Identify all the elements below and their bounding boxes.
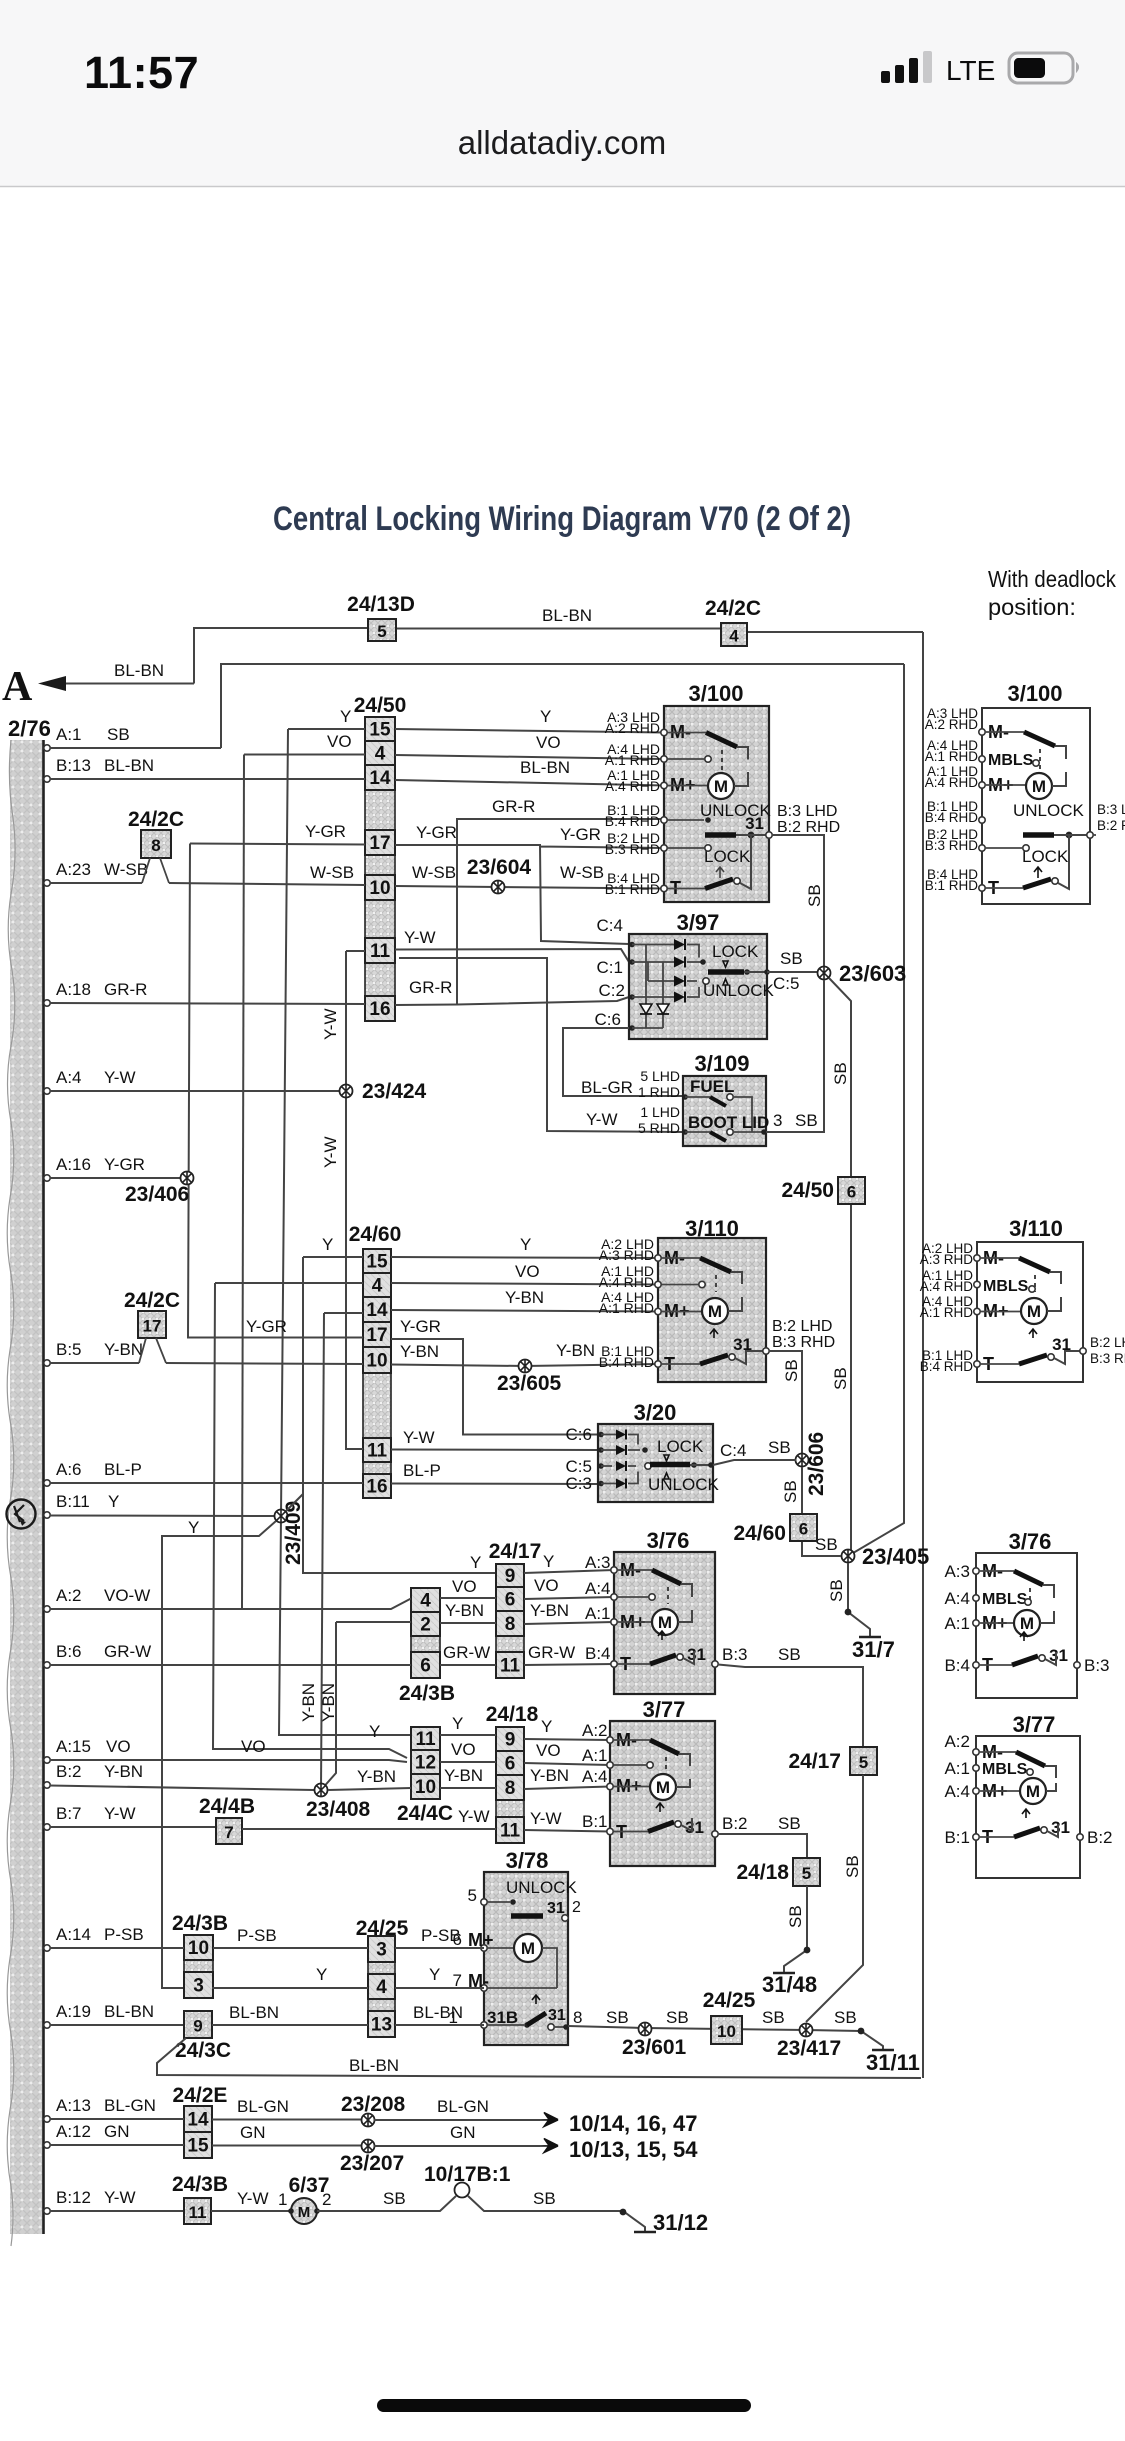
wire VO-W A:2: [50, 1599, 411, 1610]
wire SB 23/405 to ground: [848, 1563, 870, 1636]
svg-text:A:3 RHD: A:3 RHD: [599, 1247, 654, 1263]
svg-text:23/605: 23/605: [497, 1372, 562, 1395]
wire BL-BN 24/50-14 right: [395, 780, 664, 786]
svg-text:SB: SB: [666, 2008, 689, 2027]
wire Y-BN vertical: [321, 1313, 324, 1790]
ground 31/7: [859, 1636, 881, 1639]
svg-text:6: 6: [847, 1183, 856, 1202]
svg-text:A:12: A:12: [56, 2122, 91, 2141]
svg-text:SB: SB: [762, 2008, 785, 2027]
wire W-SB 24/50-10 right: [395, 886, 664, 889]
svg-text:31: 31: [745, 814, 764, 833]
svg-text:Y-BN: Y-BN: [556, 1341, 595, 1360]
svg-text:SB: SB: [831, 1367, 850, 1390]
svg-text:3/77: 3/77: [643, 1697, 686, 1722]
label SB (24/18-5 drop): [786, 1905, 805, 1928]
svg-text:GR-W: GR-W: [104, 1642, 151, 1661]
splice 23/606: [796, 1454, 809, 1467]
svg-text:GR-W: GR-W: [528, 1643, 575, 1662]
wire BL-BN to arrow A: [66, 683, 194, 685]
wire Y-W vertical 23/424: [346, 951, 363, 1449]
svg-text:11: 11: [370, 941, 391, 962]
pin B:12 on connector 2/76: [44, 2208, 50, 2214]
wire Y-W 24/50-11: [346, 949, 629, 962]
home indicator: [377, 2399, 751, 2412]
svg-text:31: 31: [548, 2007, 566, 2024]
svg-text:VO: VO: [515, 1262, 540, 1281]
svg-text:Y-BN: Y-BN: [104, 1762, 143, 1781]
wire SB 3/76 to 24/17-5: [718, 1665, 863, 1748]
svg-text:Y: Y: [188, 1518, 199, 1537]
wire GR-W B:6: [50, 1664, 411, 1666]
svg-text:Central Locking Wiring Diagram: Central Locking Wiring Diagram V70 (2 Of…: [273, 500, 851, 538]
svg-text:BL-P: BL-P: [403, 1461, 441, 1480]
pin A:12 on connector 2/76: [44, 2142, 50, 2148]
status bar background: [0, 0, 1125, 186]
wire SB 10/17B:1 to 31/12: [468, 2196, 645, 2231]
wire Y 24/50-15 left: [288, 728, 365, 730]
label SB (23/606 below): [781, 1480, 800, 1503]
wire VO A:15: [50, 1760, 407, 1762]
svg-text:A:4: A:4: [585, 1579, 611, 1598]
wire SB 6/37 to 10/17B:1: [317, 2196, 456, 2211]
svg-text:Y-W: Y-W: [104, 1068, 136, 1087]
splice 23/601: [639, 2023, 652, 2036]
svg-text:VO: VO: [241, 1737, 266, 1756]
svg-text:SB: SB: [606, 2008, 629, 2027]
svg-text:BL-BN: BL-BN: [114, 661, 164, 680]
wire Y 24/60-15 left: [303, 1256, 363, 1258]
svg-text:10/14, 16, 47: 10/14, 16, 47: [569, 2111, 697, 2136]
svg-text:Y: Y: [322, 1235, 333, 1254]
wire Y 24/17-9 right: [524, 1570, 614, 1573]
svg-text:B:6: B:6: [56, 1642, 82, 1661]
svg-text:24/3B: 24/3B: [172, 1912, 228, 1935]
svg-text:A:2: A:2: [944, 1732, 970, 1751]
svg-text:C:4: C:4: [720, 1441, 746, 1460]
svg-text:BL-P: BL-P: [104, 1460, 142, 1479]
svg-text:GN: GN: [240, 2123, 266, 2142]
svg-text:A:4: A:4: [582, 1767, 608, 1786]
label Y-W (vert upper): [321, 1009, 340, 1041]
svg-text:31/12: 31/12: [653, 2210, 708, 2235]
pin B:7 on connector 2/76: [44, 1824, 50, 1830]
wire Y-BN 24/60-14 right: [391, 1310, 658, 1312]
wire BL-BN A:19: [50, 2024, 184, 2026]
svg-text:Y-BN: Y-BN: [530, 1766, 569, 1785]
svg-text:23/603: 23/603: [839, 961, 906, 986]
svg-text:A:18: A:18: [56, 980, 91, 999]
svg-text:3/78: 3/78: [506, 1848, 549, 1873]
wire Y vertical 24/60-24/17: [303, 1257, 496, 1573]
svg-text:GR-R: GR-R: [409, 978, 452, 997]
svg-text:24/2C: 24/2C: [128, 808, 184, 831]
svg-text:GR-R: GR-R: [104, 980, 147, 999]
svg-text:B:4 RHD: B:4 RHD: [605, 813, 660, 829]
wire GR-R A:18: [50, 1003, 365, 1004]
svg-text:MBLS: MBLS: [988, 752, 1034, 769]
svg-text:Y-BN: Y-BN: [299, 1683, 318, 1722]
svg-text:24/4B: 24/4B: [199, 1795, 255, 1818]
label SB (3/110 drop): [782, 1359, 801, 1382]
svg-text:MBLS: MBLS: [982, 1761, 1028, 1778]
wire SB 24/17-5 down: [806, 1775, 863, 2022]
svg-text:14: 14: [366, 1300, 388, 1321]
splice 23/408: [315, 1784, 328, 1797]
svg-text:UNLOCK: UNLOCK: [1013, 801, 1085, 820]
svg-text:W-SB: W-SB: [310, 863, 354, 882]
svg-text:B:4 RHD: B:4 RHD: [925, 810, 979, 825]
svg-text:A:15: A:15: [56, 1737, 91, 1756]
svg-text:Y-GR: Y-GR: [246, 1317, 287, 1336]
svg-text:B:3 RH: B:3 RH: [1090, 1351, 1125, 1366]
wire Y-GR A:16: [50, 1177, 187, 1179]
svg-text:W-SB: W-SB: [560, 863, 604, 882]
splice 23/603: [818, 967, 831, 980]
svg-text:BL-BN: BL-BN: [542, 606, 592, 625]
wire P-SB 24/25-3 to 3/78: [395, 1947, 484, 1949]
svg-text:8: 8: [151, 836, 160, 855]
svg-text:A:2 RHD: A:2 RHD: [605, 720, 660, 736]
svg-text:A:1: A:1: [944, 1759, 970, 1778]
svg-text:BL-BN: BL-BN: [229, 2003, 279, 2022]
svg-text:10/17B:1: 10/17B:1: [424, 2163, 511, 2186]
svg-text:SB: SB: [815, 1535, 838, 1554]
svg-text:6: 6: [799, 1520, 808, 1539]
pin A:16 on connector 2/76: [44, 1175, 50, 1181]
wire P-SB 24/3B-10 to 24/25-3: [213, 1947, 368, 1949]
svg-text:B:12: B:12: [56, 2188, 91, 2207]
svg-text:23/606: 23/606: [805, 1432, 828, 1496]
svg-text:VO: VO: [106, 1737, 131, 1756]
pin B:6 on connector 2/76: [44, 1662, 50, 1668]
svg-text:B:2 LH: B:2 LH: [1090, 1335, 1125, 1350]
pin A:15 on connector 2/76: [44, 1757, 50, 1763]
wire BL-GN A:13: [50, 2118, 184, 2120]
junction dot 23/405 drop: [845, 1609, 852, 1616]
pin B:11 on connector 2/76: [44, 1512, 50, 1518]
svg-text:A:19: A:19: [56, 2002, 91, 2021]
wire Y 24/4C-11 feed: [440, 1734, 496, 1736]
svg-text:A:4 RHD: A:4 RHD: [599, 1274, 654, 1290]
svg-text:Y-W: Y-W: [237, 2189, 269, 2208]
wire Y-GR 24/50-17 right: [395, 845, 664, 944]
svg-text:24/50: 24/50: [354, 694, 407, 717]
svg-text:B:2: B:2: [1087, 1828, 1113, 1847]
svg-text:SB: SB: [786, 1905, 805, 1928]
svg-text:B:2: B:2: [722, 1814, 748, 1833]
wire W-SB A:23: [50, 883, 365, 885]
ground 31/11: [872, 2049, 894, 2052]
wire Y-GR top: [190, 844, 365, 845]
connector 24/3C pin 9: [184, 2011, 212, 2038]
svg-text:24/18: 24/18: [736, 1861, 789, 1884]
svg-text:Y-BN: Y-BN: [530, 1601, 569, 1620]
svg-text:A:16: A:16: [56, 1155, 91, 1174]
svg-text:B:4: B:4: [585, 1644, 611, 1663]
svg-text:B:3 LH: B:3 LH: [1097, 802, 1125, 817]
junction dot 31/11: [858, 2028, 865, 2035]
svg-text:24/60: 24/60: [733, 1522, 786, 1545]
svg-text:M: M: [1027, 1302, 1041, 1321]
svg-text:9: 9: [505, 1730, 516, 1751]
svg-text:A:4 RHD: A:4 RHD: [605, 778, 660, 794]
svg-text:10: 10: [717, 2022, 736, 2041]
svg-text:24/17: 24/17: [788, 1750, 841, 1773]
wire VO 24/60-4 left: [215, 1282, 363, 1284]
svg-text:SB: SB: [768, 1438, 791, 1457]
svg-text:17: 17: [366, 1325, 387, 1346]
svg-text:SB: SB: [778, 1645, 801, 1664]
svg-text:SB: SB: [834, 2008, 857, 2027]
svg-text:13: 13: [371, 2015, 392, 2036]
svg-text:4: 4: [375, 744, 386, 765]
wire C:4 SB to 23/606: [713, 1460, 796, 1465]
svg-text:B:3 LHD: B:3 LHD: [777, 803, 837, 820]
pin A:6 on connector 2/76: [44, 1480, 50, 1486]
svg-text:17: 17: [369, 833, 390, 854]
svg-text:6: 6: [505, 1754, 516, 1775]
svg-text:A:4: A:4: [944, 1589, 970, 1608]
svg-text:Y-W: Y-W: [104, 1804, 136, 1823]
pin A:4 on connector 2/76: [44, 1088, 50, 1094]
svg-text:B:5: B:5: [56, 1340, 82, 1359]
svg-text:A:1 RHD: A:1 RHD: [925, 749, 979, 764]
wire SB 24/18-5 to ground: [784, 1886, 807, 1972]
wire VO 24/60-4 right: [391, 1283, 658, 1285]
wire Y-BN 24/60-14 left: [324, 1312, 363, 1314]
svg-text:B:4 RHD: B:4 RHD: [920, 1359, 974, 1374]
wire B:5 Y-BN: [50, 1363, 363, 1364]
svg-text:31: 31: [547, 1900, 565, 1917]
svg-text:B:3: B:3: [722, 1645, 748, 1664]
svg-text:Y: Y: [369, 1722, 380, 1741]
svg-text:P-SB: P-SB: [237, 1926, 277, 1945]
svg-text:Y-GR: Y-GR: [560, 825, 601, 844]
svg-text:5: 5: [859, 1753, 868, 1772]
svg-text:BL-BN: BL-BN: [104, 2002, 154, 2021]
svg-text:M: M: [658, 1613, 672, 1632]
svg-text:C:6: C:6: [595, 1010, 621, 1029]
wire BL-BN right drop: [922, 632, 924, 2078]
wire BL-BN B:13: [50, 778, 365, 780]
svg-text:23/405: 23/405: [862, 1544, 929, 1569]
svg-text:MBLS: MBLS: [982, 1591, 1028, 1608]
svg-text:17: 17: [143, 1317, 162, 1336]
svg-text:24/25: 24/25: [703, 1989, 756, 2012]
svg-text:C:6: C:6: [566, 1425, 592, 1444]
svg-text:A:4: A:4: [944, 1782, 970, 1801]
svg-text:Y-GR: Y-GR: [416, 823, 457, 842]
svg-text:BL-BN: BL-BN: [413, 2003, 463, 2022]
svg-text:Y-BN: Y-BN: [445, 1601, 484, 1620]
svg-text:M: M: [1026, 1782, 1040, 1801]
svg-text:GR-W: GR-W: [443, 1643, 490, 1662]
svg-text:23/406: 23/406: [125, 1183, 189, 1206]
wire Y-GR 24/60-17 right: [391, 1339, 598, 1435]
svg-text:4: 4: [372, 1276, 383, 1297]
wire Y-W 24/18-11 right: [524, 1830, 610, 1832]
svg-text:B:13: B:13: [56, 756, 91, 775]
svg-text:A:1: A:1: [56, 725, 82, 744]
svg-text:Y: Y: [543, 1552, 554, 1571]
svg-text:15: 15: [369, 720, 391, 741]
svg-text:LTE: LTE: [946, 55, 995, 86]
svg-text:A:2 RHD: A:2 RHD: [925, 717, 979, 732]
svg-text:10: 10: [366, 1351, 387, 1372]
svg-text:3/109: 3/109: [694, 1051, 749, 1076]
label SB (below 23/405): [827, 1579, 846, 1602]
svg-text:Y-GR: Y-GR: [305, 822, 346, 841]
svg-text:3/76: 3/76: [647, 1528, 690, 1553]
svg-text:B:4: B:4: [944, 1656, 970, 1675]
svg-text:24/2E: 24/2E: [173, 2084, 228, 2107]
svg-text:A:3: A:3: [944, 1562, 970, 1581]
svg-text:position:: position:: [988, 594, 1076, 620]
svg-text:SB: SB: [780, 949, 803, 968]
svg-text:A:1: A:1: [582, 1746, 608, 1765]
wire BL-GN 24/2E-14 right: [212, 2119, 362, 2121]
svg-text:BL-BN: BL-BN: [349, 2056, 399, 2075]
svg-text:With deadlock: With deadlock: [988, 566, 1116, 592]
svg-text:Y-W: Y-W: [403, 1428, 435, 1447]
wire Y-BN 24/3B-2 to 24/17-8: [440, 1622, 496, 1624]
svg-text:3: 3: [193, 1976, 204, 1997]
wire VO 24/4C-12 to 24/18-6: [440, 1761, 496, 1763]
off-page arrow A: [38, 676, 66, 691]
svg-text:C:5: C:5: [773, 974, 799, 993]
svg-text:Y-W: Y-W: [586, 1110, 618, 1129]
connector 2/76 bar: [10, 740, 43, 2234]
svg-text:16: 16: [369, 999, 390, 1020]
svg-text:24/2C: 24/2C: [124, 1289, 180, 1312]
svg-text:A:3: A:3: [585, 1553, 611, 1572]
svg-text:A:13: A:13: [56, 2096, 91, 2115]
svg-text:B:11: B:11: [56, 1492, 90, 1511]
svg-text:3/20: 3/20: [634, 1400, 677, 1425]
svg-text:14: 14: [187, 2110, 209, 2131]
svg-text:10: 10: [415, 1777, 436, 1798]
wire VO 24/17-6 right: [524, 1597, 614, 1599]
svg-text:4: 4: [376, 1977, 387, 1998]
svg-text:M: M: [656, 1778, 670, 1797]
wire SB A:1: [50, 747, 221, 749]
svg-text:UNLOCK: UNLOCK: [703, 981, 775, 1000]
svg-text:11:57: 11:57: [84, 47, 199, 98]
splice 23/417: [800, 2024, 813, 2037]
svg-text:2/76: 2/76: [8, 716, 51, 741]
wire VO 24/50-4 right: [395, 755, 664, 759]
wire BL-BN 24/3C-9 to 24/25-13: [212, 2024, 368, 2026]
svg-text:C:3: C:3: [566, 1474, 592, 1493]
svg-text:B:1 RHD: B:1 RHD: [925, 878, 979, 893]
svg-text:3/100: 3/100: [688, 681, 743, 706]
svg-text:31/7: 31/7: [852, 1637, 895, 1662]
pin A:13 on connector 2/76: [44, 2116, 50, 2122]
label Y-BN rotated pair: [299, 1683, 318, 1722]
wire Y-BN 24/60-10 right: [391, 1364, 658, 1366]
wire Y-W 24/4B to 24/18-11: [242, 1829, 496, 1830]
svg-text:23/604: 23/604: [467, 856, 532, 879]
svg-text:24/60: 24/60: [349, 1223, 402, 1246]
svg-text:BL-BN: BL-BN: [520, 758, 570, 777]
splice 23/409: [275, 1510, 288, 1523]
svg-text:15: 15: [366, 1252, 388, 1273]
svg-text:M: M: [521, 1939, 535, 1958]
svg-text:BL-GN: BL-GN: [437, 2097, 489, 2116]
svg-text:10: 10: [188, 1938, 209, 1959]
svg-text:6: 6: [420, 1656, 431, 1677]
wire Y-BN 23/408 to 24/4C-10: [328, 1788, 411, 1790]
svg-text:BL-BN: BL-BN: [104, 756, 154, 775]
wire Y 24/4C-11 to 24/18-9: [440, 1734, 496, 1736]
wire SB right drop: [848, 664, 904, 1556]
svg-text:A:4 RHD: A:4 RHD: [925, 775, 979, 790]
svg-text:B:3: B:3: [1084, 1656, 1110, 1675]
svg-text:Y-BN: Y-BN: [104, 1340, 143, 1359]
svg-text:B:2: B:2: [56, 1762, 82, 1781]
svg-text:Y-BN: Y-BN: [505, 1288, 544, 1307]
svg-text:Y: Y: [108, 1492, 119, 1511]
svg-text:A:4 RHD: A:4 RHD: [920, 1279, 974, 1294]
wire VO 24/3B-4 to 24/17-6: [440, 1597, 496, 1599]
svg-text:A:1 RHD: A:1 RHD: [605, 752, 660, 768]
svg-text:3: 3: [773, 1111, 782, 1130]
wire BL-BN loop bottom: [157, 2038, 921, 2078]
svg-text:Y-BN: Y-BN: [444, 1766, 483, 1785]
svg-text:8: 8: [505, 1614, 516, 1635]
svg-text:A: A: [2, 664, 33, 710]
wire Y-BN 24/3B-2 feed: [321, 1622, 411, 1790]
signal bars: [881, 51, 932, 83]
svg-text:Y-W: Y-W: [404, 928, 436, 947]
svg-text:A:3 RHD: A:3 RHD: [920, 1252, 974, 1267]
svg-text:24/3C: 24/3C: [175, 2039, 231, 2062]
svg-text:VO: VO: [536, 733, 561, 752]
svg-text:5: 5: [468, 1886, 477, 1905]
svg-text:M: M: [1020, 1614, 1034, 1633]
wire GN 24/2E-15 right: [212, 2145, 362, 2147]
svg-text:1: 1: [278, 2190, 287, 2209]
splice 23/208: [362, 2114, 375, 2127]
svg-text:31/11: 31/11: [866, 2050, 920, 2075]
svg-text:23/408: 23/408: [306, 1798, 371, 1821]
svg-text:SB: SB: [782, 1359, 801, 1382]
wire Y-BN 24/4C-10 to 24/18-8: [440, 1787, 496, 1789]
svg-text:SB: SB: [827, 1579, 846, 1602]
svg-text:BL-GN: BL-GN: [237, 2097, 289, 2116]
wire GR-W 24/17-11 right: [524, 1664, 614, 1665]
svg-text:3/100: 3/100: [1007, 681, 1062, 706]
svg-text:7: 7: [224, 1823, 233, 1842]
wire Y-W B:7: [50, 1826, 216, 1828]
svg-text:BL-GN: BL-GN: [104, 2096, 156, 2115]
label SB (24/17-5 drop): [843, 1855, 862, 1878]
svg-text:SB: SB: [795, 1111, 818, 1130]
svg-text:Y: Y: [540, 707, 551, 726]
svg-text:Y: Y: [429, 1965, 440, 1984]
svg-text:23/417: 23/417: [777, 2037, 841, 2060]
label SB (23/603 drop): [831, 1062, 850, 1085]
svg-text:11: 11: [415, 1729, 436, 1750]
svg-text:11: 11: [500, 1656, 521, 1677]
svg-text:Y: Y: [340, 707, 351, 726]
svg-text:Y-W: Y-W: [321, 1137, 340, 1169]
svg-text:16: 16: [366, 1477, 387, 1498]
svg-text:VO: VO: [451, 1740, 476, 1759]
wire SB 23/606 to 24/60-6: [802, 1467, 841, 1556]
svg-text:MBLS: MBLS: [983, 1278, 1029, 1295]
